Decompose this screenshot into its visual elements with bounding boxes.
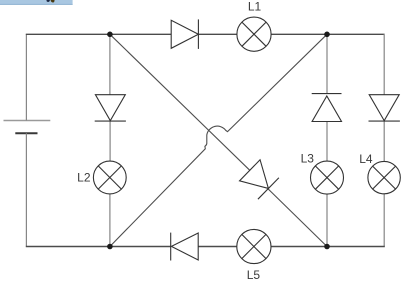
svg-text:L3: L3 xyxy=(301,152,315,166)
wire top left xyxy=(26,33,171,35)
diode bottom (left-pointing) xyxy=(171,233,199,261)
wire L2 branch mid xyxy=(109,121,111,161)
node bottom-right junction xyxy=(324,244,330,250)
wire top middle xyxy=(198,33,237,35)
svg-text:L4: L4 xyxy=(359,152,373,166)
node top-right junction xyxy=(324,32,330,38)
diode above L3 (up-pointing) xyxy=(312,94,342,122)
wire diagonal B with hop over crossing xyxy=(110,34,327,246)
wire top right xyxy=(271,33,384,35)
svg-text:L2: L2 xyxy=(77,170,91,184)
lamp L2 xyxy=(93,161,126,194)
wire diagonal A upper (junction to middle diode) xyxy=(110,34,250,170)
wire bottom left xyxy=(26,246,171,248)
svg-text:L5: L5 xyxy=(247,268,261,282)
diode top (right-pointing) xyxy=(171,19,198,49)
battery xyxy=(4,121,51,134)
wire bottom right xyxy=(271,246,385,248)
wire right rail upper xyxy=(383,34,385,95)
lamp L4 xyxy=(368,161,400,193)
wire diagonal A lower (middle diode to junction) xyxy=(268,189,327,247)
wire right rail lower xyxy=(383,194,385,247)
lamp L3 xyxy=(311,161,344,194)
node bottom-left junction xyxy=(107,244,113,250)
node top-left junction xyxy=(107,32,113,38)
wire L3 branch upper xyxy=(326,34,328,93)
wire left rail bottom xyxy=(25,133,27,246)
wire L2 branch upper xyxy=(109,34,111,94)
wire L3 branch lower xyxy=(326,194,328,246)
wire right rail mid xyxy=(383,121,385,162)
wire L3 branch mid xyxy=(326,122,328,162)
lamp L1 xyxy=(237,17,271,51)
svg-text:L1: L1 xyxy=(248,0,262,14)
lamp L5 xyxy=(237,229,271,263)
diode above L2 (down-pointing) xyxy=(95,95,126,121)
diode middle (on diagonal, down-right pointing) xyxy=(239,160,279,200)
diode above L4 (down-pointing) xyxy=(369,95,400,121)
blue highlight bar (cropped selection at top-left) xyxy=(0,0,73,5)
wire left rail top xyxy=(25,34,27,120)
wire L2 branch lower xyxy=(109,194,111,247)
wire bottom middle xyxy=(198,246,237,248)
